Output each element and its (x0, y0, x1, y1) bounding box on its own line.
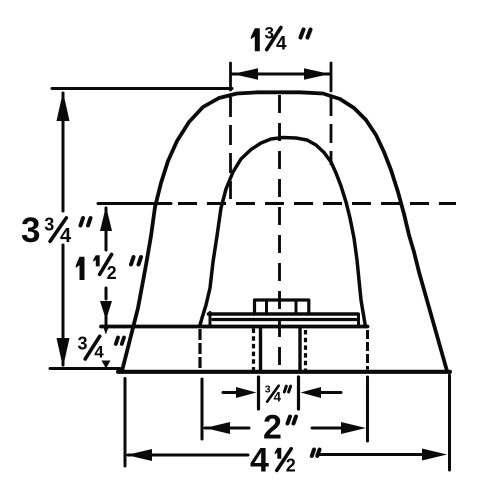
svg-text:4: 4 (250, 441, 269, 479)
svg-text:3: 3 (21, 211, 40, 250)
svg-text:4: 4 (60, 225, 72, 247)
svg-text:2: 2 (286, 455, 296, 475)
svg-text:3: 3 (44, 215, 54, 235)
svg-text:4: 4 (276, 34, 287, 55)
svg-text:2: 2 (107, 263, 117, 283)
svg-text:3: 3 (78, 334, 88, 354)
svg-text:3: 3 (265, 383, 271, 395)
